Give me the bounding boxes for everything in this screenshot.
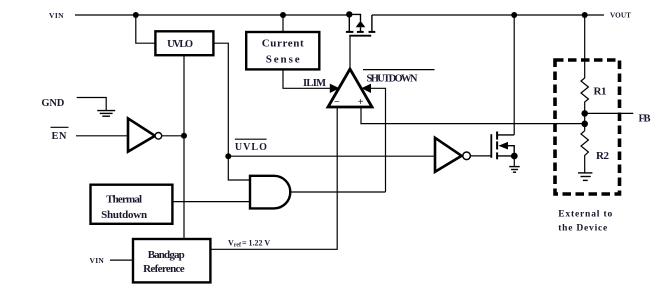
svg-text:SHUTDOWN: SHUTDOWN [367,74,418,85]
node junction dot on enable net [181,133,187,139]
op-amp U1 error amplifier [328,69,372,108]
wire VIN to UVLO input [136,15,156,43]
svg-text:Thermal: Thermal [106,194,142,206]
node junction dot feedback to op-amp [581,121,588,128]
svg-text:R2: R2 [596,150,610,162]
external components dashed enclosure [555,60,620,194]
node VIN label at Bandgap [90,256,105,265]
transistor Q2 channel bar segments [496,132,498,160]
node junction dot FB tap [581,110,588,117]
node VOUT label [610,12,631,20]
resistor R1 [581,78,607,113]
node junction dot on UVLO net [225,153,231,159]
wire inverter U4 output to Q2 gate [470,155,491,157]
svg-text:ILIM: ILIM [303,78,326,89]
transistor Q2 source stub [497,155,514,157]
svg-text:FB: FB [639,114,651,125]
Bandgap Reference block [133,239,210,282]
transistor Q2 NMOS discharge: gate bar [490,134,492,158]
wire VOUT rail [372,14,604,16]
svg-text:+: + [358,97,364,108]
Thermal Shutdown block [91,185,173,224]
AND gate U2 [250,176,290,209]
ground symbol at R2 [578,173,592,181]
GND label [41,98,64,109]
node junction dot at divider branch [582,12,588,18]
wire op-amp non-inverting input to feedback node [361,107,585,124]
svg-text:the Device: the Device [558,224,607,234]
ground symbol at GND [97,111,115,117]
node junction dot at Q2 source/body [511,153,518,160]
node junction dot at discharge FET branch [511,12,517,18]
node FB label [639,114,651,125]
wire FB lead [585,112,634,114]
svg-text:VIN: VIN [49,11,64,20]
wire VIN to Current Sense [282,15,284,32]
wire Thermal Shutdown to AND gate bottom input [172,201,250,203]
transistor Q1 body diode arrow [349,14,365,32]
UVLO block [155,31,213,55]
svg-text:VIN: VIN [90,256,105,265]
wire AND gate output to SHUTDOWN net [290,191,385,193]
wire UVLO output to AND gate top input [213,43,250,180]
ground symbol at Q2 [509,167,520,173]
transistor Q1 gate bar [349,35,371,37]
wire inverter output to enable net [162,135,184,137]
wire Q2 drain to VOUT rail [513,15,515,135]
svg-text:GND: GND [41,98,64,109]
svg-text:VOUT: VOUT [610,12,631,20]
transistor Q1 right terminal stub [371,15,373,32]
svg-text:Bandgap: Bandgap [148,249,185,261]
svg-text:UVLO: UVLO [235,142,267,153]
wire Bandgap Vref output to op-amp inverting input [210,107,337,249]
svg-text:Current: Current [262,38,304,50]
node junction dot at Q1 source [346,11,352,17]
wire EN to inverter [76,135,128,137]
svg-text:UVLO: UVLO [167,39,193,50]
Vref label [228,239,270,249]
svg-text:R1: R1 [594,86,607,98]
EN label with overline [51,127,69,142]
wire Q2 source to ground [513,156,515,166]
wire VIN rail [75,14,349,16]
node junction dot at UVLO branch [133,12,139,18]
svg-text:Sense: Sense [266,54,300,66]
wire GND lead [77,98,107,111]
external enclosure caption [558,209,612,233]
wire Q1 gate to op-amp output [349,36,351,69]
UVLO net label with overline [235,139,267,153]
node junction dot at Current Sense branch [280,12,286,18]
svg-text:External to: External to [558,209,612,219]
wire divider segment [584,113,586,130]
resistor R2 [581,131,610,173]
Current Sense block [246,32,319,69]
SHUTDOWN label with overline [363,70,435,85]
wire UVLO bottom to Bandgap top [183,55,185,239]
ILIM label [303,78,326,89]
svg-text:EN: EN [52,131,67,142]
wire Current Sense to ILIM arrow [283,69,331,88]
transistor Q1 PMOS pass element: left terminal stub [348,14,350,32]
transistor Q2 drain stub [497,134,514,136]
svg-text:Reference: Reference [143,263,185,275]
SHUTDOWN arrowhead into op-amp [361,84,371,93]
svg-text:−: − [334,97,340,108]
inverter U3 (EN buffer) [128,118,162,151]
svg-text:Shutdown: Shutdown [101,209,147,221]
transistor Q2 body arrow [498,142,514,156]
wire UVLO net to inverter U4 input [228,155,434,157]
wire VIN to Bandgap [110,259,133,261]
wire SHUTDOWN net from AND gate [371,88,386,192]
node VIN label [49,11,64,20]
inverter U4 (discharge driver) [435,138,470,172]
wire VOUT to R1 [584,15,586,78]
ILIM arrowhead into op-amp [330,84,340,93]
transistor Q1 channel bar segments [346,31,375,33]
